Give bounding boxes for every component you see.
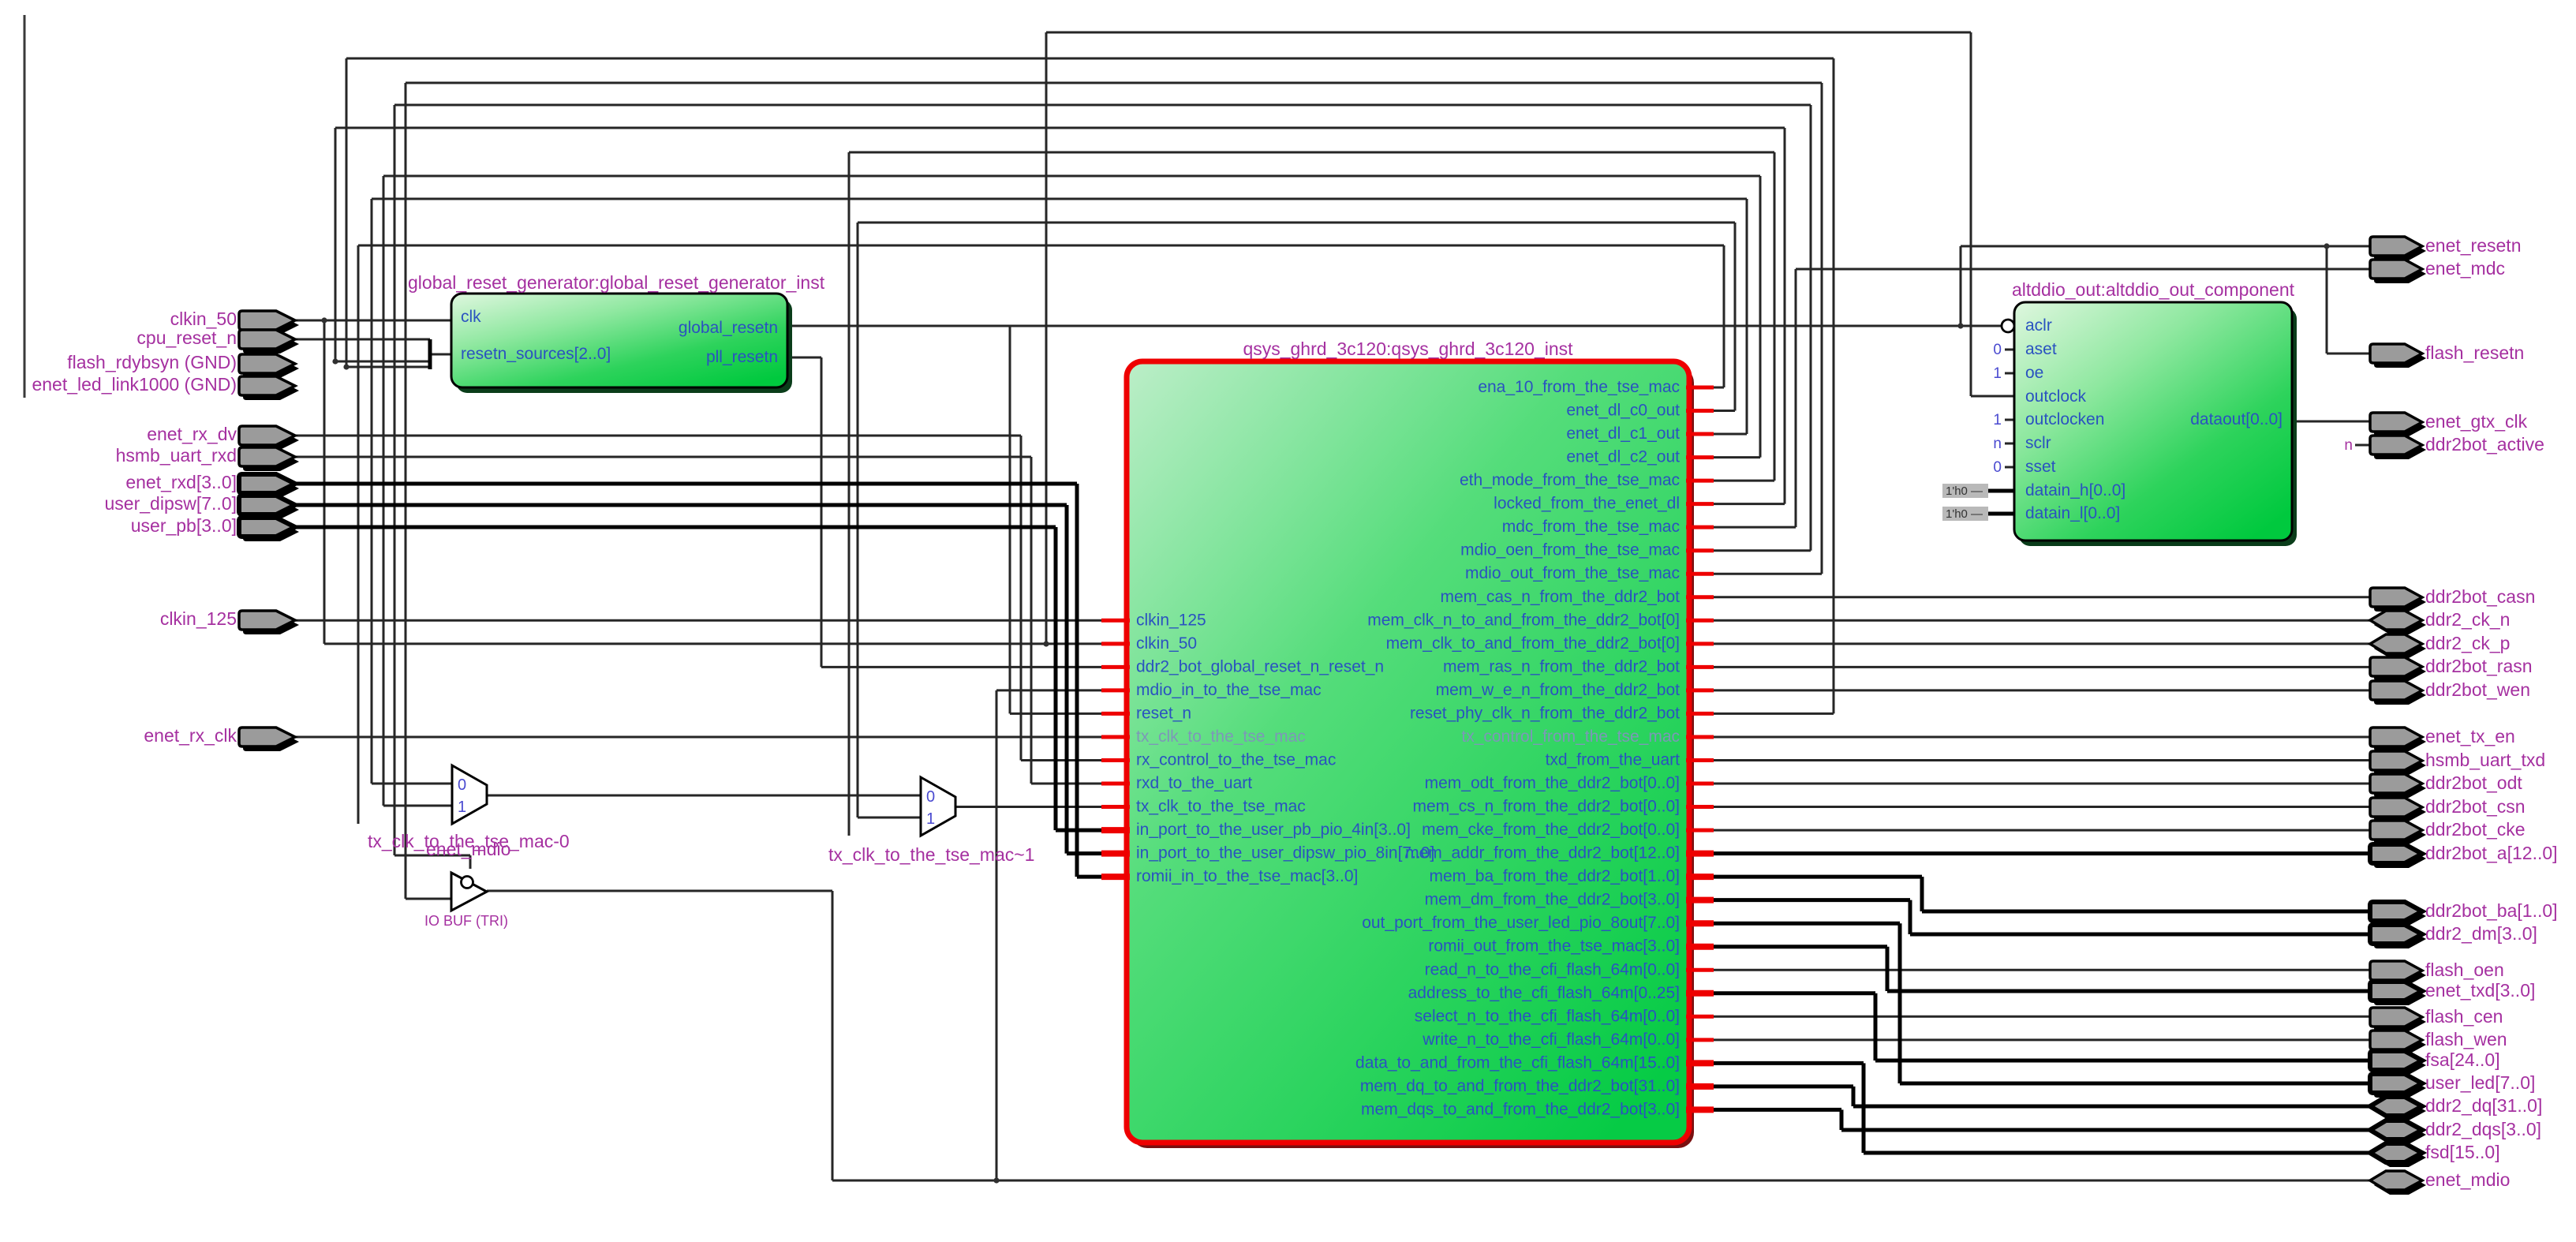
svg-text:enet_tx_en: enet_tx_en xyxy=(2425,726,2515,746)
svg-text:ddr2_ck_p: ddr2_ck_p xyxy=(2425,633,2510,653)
svg-text:ddr2_dm[3..0]: ddr2_dm[3..0] xyxy=(2425,923,2537,944)
svg-text:rx_control_to_the_tse_mac: rx_control_to_the_tse_mac xyxy=(1136,750,1336,769)
svg-text:enet_gtx_clk: enet_gtx_clk xyxy=(2425,411,2528,432)
svg-text:ddr2bot_casn: ddr2bot_casn xyxy=(2425,586,2535,607)
svg-text:mem_cs_n_from_the_ddr2_bot[0..: mem_cs_n_from_the_ddr2_bot[0..0] xyxy=(1412,798,1680,816)
svg-text:outclocken: outclocken xyxy=(2025,410,2104,428)
svg-text:ddr2_ck_n: ddr2_ck_n xyxy=(2425,609,2510,630)
svg-text:tx_clk_to_the_tse_mac: tx_clk_to_the_tse_mac xyxy=(1136,728,1306,746)
svg-text:out_port_from_the_user_led_pio: out_port_from_the_user_led_pio_8out[7..0… xyxy=(1362,914,1680,932)
svg-text:address_to_the_cfi_flash_64m[0: address_to_the_cfi_flash_64m[0..25] xyxy=(1408,984,1680,1002)
svg-text:tx_clk_to_the_tse_mac~1: tx_clk_to_the_tse_mac~1 xyxy=(828,844,1034,865)
svg-text:txd_from_the_uart: txd_from_the_uart xyxy=(1546,750,1681,769)
svg-text:ddr2bot_ba[1..0]: ddr2bot_ba[1..0] xyxy=(2425,900,2558,921)
svg-text:1: 1 xyxy=(1993,365,2002,382)
svg-text:mdio_in_to_the_tse_mac: mdio_in_to_the_tse_mac xyxy=(1136,681,1322,699)
svg-text:outclock: outclock xyxy=(2025,387,2087,406)
svg-text:mem_dq_to_and_from_the_ddr2_bo: mem_dq_to_and_from_the_ddr2_bot[31..0] xyxy=(1360,1077,1680,1095)
svg-text:enet_led_link1000 (GND): enet_led_link1000 (GND) xyxy=(32,374,237,395)
svg-text:enet_txd[3..0]: enet_txd[3..0] xyxy=(2425,980,2535,1001)
svg-text:global_resetn: global_resetn xyxy=(679,319,778,337)
svg-text:global_reset_generator:global_: global_reset_generator:global_reset_gene… xyxy=(408,272,825,293)
svg-text:mem_ras_n_from_the_ddr2_bot: mem_ras_n_from_the_ddr2_bot xyxy=(1443,657,1680,675)
svg-text:enet_dl_c2_out: enet_dl_c2_out xyxy=(1566,448,1680,466)
svg-text:mem_odt_from_the_ddr2_bot[0..0: mem_odt_from_the_ddr2_bot[0..0] xyxy=(1425,774,1680,792)
svg-text:ena_10_from_the_tse_mac: ena_10_from_the_tse_mac xyxy=(1478,378,1680,396)
svg-text:altddio_out:altddio_out_compon: altddio_out:altddio_out_component xyxy=(2012,279,2295,300)
svg-text:locked_from_the_enet_dl: locked_from_the_enet_dl xyxy=(1494,495,1680,513)
svg-text:reset_n: reset_n xyxy=(1136,704,1191,722)
svg-text:ddr2_dq[31..0]: ddr2_dq[31..0] xyxy=(2425,1095,2542,1116)
svg-text:in_port_to_the_user_dipsw_pio_: in_port_to_the_user_dipsw_pio_8in[7..0] xyxy=(1136,844,1434,862)
svg-text:aset: aset xyxy=(2025,340,2057,358)
svg-text:n: n xyxy=(1993,436,2002,452)
svg-text:enet_dl_c1_out: enet_dl_c1_out xyxy=(1566,425,1680,443)
svg-text:0: 0 xyxy=(1993,342,2002,358)
svg-text:rxd_to_the_uart: rxd_to_the_uart xyxy=(1136,774,1252,792)
svg-text:mem_ba_from_the_ddr2_bot[1..0]: mem_ba_from_the_ddr2_bot[1..0] xyxy=(1429,867,1680,885)
svg-text:hsmb_uart_rxd: hsmb_uart_rxd xyxy=(116,445,237,466)
svg-text:romii_out_from_the_tse_mac[3..: romii_out_from_the_tse_mac[3..0] xyxy=(1428,937,1680,956)
svg-text:clkin_125: clkin_125 xyxy=(160,608,237,629)
svg-text:select_n_to_the_cfi_flash_64m[: select_n_to_the_cfi_flash_64m[0..0] xyxy=(1415,1007,1680,1025)
svg-text:user_dipsw[7..0]: user_dipsw[7..0] xyxy=(105,493,237,514)
svg-text:user_led[7..0]: user_led[7..0] xyxy=(2425,1072,2535,1093)
svg-text:ddr2bot_odt: ddr2bot_odt xyxy=(2425,773,2522,793)
svg-text:cpu_reset_n: cpu_reset_n xyxy=(136,327,237,348)
svg-text:ddr2_bot_global_reset_n_reset_: ddr2_bot_global_reset_n_reset_n xyxy=(1136,657,1384,675)
svg-text:mdc_from_the_tse_mac: mdc_from_the_tse_mac xyxy=(1502,518,1680,536)
svg-text:1: 1 xyxy=(1993,412,2002,428)
svg-text:fsd[15..0]: fsd[15..0] xyxy=(2425,1142,2500,1162)
svg-text:enet_mdio: enet_mdio xyxy=(2425,1169,2510,1190)
svg-text:sclr: sclr xyxy=(2025,434,2051,452)
svg-text:dataout[0..0]: dataout[0..0] xyxy=(2190,410,2283,428)
svg-text:flash_resetn: flash_resetn xyxy=(2425,342,2524,363)
svg-text:1: 1 xyxy=(926,810,935,828)
svg-text:flash_wen: flash_wen xyxy=(2425,1029,2507,1049)
svg-text:ddr2bot_csn: ddr2bot_csn xyxy=(2425,796,2526,817)
svg-text:romii_in_to_the_tse_mac[3..0]: romii_in_to_the_tse_mac[3..0] xyxy=(1136,867,1358,885)
svg-text:0: 0 xyxy=(1993,459,2002,476)
svg-text:1: 1 xyxy=(458,799,466,816)
svg-text:mdio_out_from_the_tse_mac: mdio_out_from_the_tse_mac xyxy=(1465,564,1680,582)
svg-text:mdio_oen_from_the_tse_mac: mdio_oen_from_the_tse_mac xyxy=(1460,541,1680,559)
svg-text:mem_addr_from_the_ddr2_bot[12.: mem_addr_from_the_ddr2_bot[12..0] xyxy=(1405,844,1680,862)
svg-text:enet_rx_dv: enet_rx_dv xyxy=(147,424,237,444)
svg-text:clkin_125: clkin_125 xyxy=(1136,611,1206,629)
svg-text:reset_phy_clk_n_from_the_ddr2_: reset_phy_clk_n_from_the_ddr2_bot xyxy=(1410,704,1680,722)
svg-text:mem_dm_from_the_ddr2_bot[3..0]: mem_dm_from_the_ddr2_bot[3..0] xyxy=(1425,891,1680,909)
svg-text:sset: sset xyxy=(2025,458,2056,476)
svg-text:resetn_sources[2..0]: resetn_sources[2..0] xyxy=(461,345,611,363)
svg-text:mem_cke_from_the_ddr2_bot[0..0: mem_cke_from_the_ddr2_bot[0..0] xyxy=(1422,821,1680,839)
svg-text:IO BUF (TRI): IO BUF (TRI) xyxy=(424,913,508,929)
svg-text:user_pb[3..0]: user_pb[3..0] xyxy=(131,515,237,536)
svg-text:tx_control_from_the_tse_mac: tx_control_from_the_tse_mac xyxy=(1461,728,1680,746)
svg-text:enet_dl_c0_out: enet_dl_c0_out xyxy=(1566,402,1680,420)
svg-text:mem_clk_to_and_from_the_ddr2_b: mem_clk_to_and_from_the_ddr2_bot[0] xyxy=(1386,634,1680,653)
svg-text:ddr2bot_wen: ddr2bot_wen xyxy=(2425,679,2530,700)
svg-text:hsmb_uart_txd: hsmb_uart_txd xyxy=(2425,750,2545,770)
svg-text:write_n_to_the_cfi_flash_64m[0: write_n_to_the_cfi_flash_64m[0..0] xyxy=(1422,1031,1680,1049)
svg-text:mem_dqs_to_and_from_the_ddr2_b: mem_dqs_to_and_from_the_ddr2_bot[3..0] xyxy=(1361,1100,1680,1118)
svg-text:aclr: aclr xyxy=(2025,316,2052,335)
svg-text:oe: oe xyxy=(2025,364,2043,382)
svg-text:enet_mdio: enet_mdio xyxy=(426,839,510,859)
svg-text:n: n xyxy=(2344,437,2353,454)
svg-text:pll_resetn: pll_resetn xyxy=(706,348,778,366)
svg-text:0: 0 xyxy=(458,776,466,794)
svg-text:flash_cen: flash_cen xyxy=(2425,1006,2503,1027)
svg-text:qsys_ghrd_3c120:qsys_ghrd_3c12: qsys_ghrd_3c120:qsys_ghrd_3c120_inst xyxy=(1243,339,1573,359)
svg-text:enet_mdc: enet_mdc xyxy=(2425,258,2505,279)
svg-text:in_port_to_the_user_pb_pio_4in: in_port_to_the_user_pb_pio_4in[3..0] xyxy=(1136,821,1411,839)
svg-text:ddr2bot_cke: ddr2bot_cke xyxy=(2425,819,2526,840)
svg-text:fsa[24..0]: fsa[24..0] xyxy=(2425,1049,2500,1070)
svg-text:clk: clk xyxy=(461,308,481,326)
svg-text:0: 0 xyxy=(926,788,935,806)
svg-text:1'h0 —: 1'h0 — xyxy=(1946,484,1983,498)
svg-text:ddr2_dqs[3..0]: ddr2_dqs[3..0] xyxy=(2425,1119,2541,1139)
svg-text:flash_oen: flash_oen xyxy=(2425,960,2504,980)
svg-text:enet_resetn: enet_resetn xyxy=(2425,235,2521,256)
svg-text:tx_clk_to_the_tse_mac: tx_clk_to_the_tse_mac xyxy=(1136,798,1306,816)
svg-text:flash_rdybsyn (GND): flash_rdybsyn (GND) xyxy=(67,352,237,372)
svg-text:ddr2bot_a[12..0]: ddr2bot_a[12..0] xyxy=(2425,843,2558,863)
svg-text:clkin_50: clkin_50 xyxy=(170,309,237,329)
svg-text:datain_l[0..0]: datain_l[0..0] xyxy=(2025,504,2120,522)
svg-text:1'h0 —: 1'h0 — xyxy=(1946,507,1983,521)
svg-text:datain_h[0..0]: datain_h[0..0] xyxy=(2025,481,2125,499)
svg-text:ddr2bot_active: ddr2bot_active xyxy=(2425,434,2544,455)
svg-text:clkin_50: clkin_50 xyxy=(1136,634,1197,653)
svg-text:read_n_to_the_cfi_flash_64m[0.: read_n_to_the_cfi_flash_64m[0..0] xyxy=(1425,960,1680,978)
svg-text:mem_cas_n_from_the_ddr2_bot: mem_cas_n_from_the_ddr2_bot xyxy=(1440,588,1680,606)
svg-text:data_to_and_from_the_cfi_flash: data_to_and_from_the_cfi_flash_64m[15..0… xyxy=(1355,1053,1680,1072)
svg-text:mem_clk_n_to_and_from_the_ddr2: mem_clk_n_to_and_from_the_ddr2_bot[0] xyxy=(1367,611,1680,629)
svg-text:enet_rx_clk: enet_rx_clk xyxy=(144,725,237,746)
svg-text:eth_mode_from_the_tse_mac: eth_mode_from_the_tse_mac xyxy=(1460,471,1680,489)
svg-text:enet_rxd[3..0]: enet_rxd[3..0] xyxy=(125,472,237,492)
svg-text:mem_w_e_n_from_the_ddr2_bot: mem_w_e_n_from_the_ddr2_bot xyxy=(1436,681,1681,699)
svg-text:ddr2bot_rasn: ddr2bot_rasn xyxy=(2425,656,2533,676)
